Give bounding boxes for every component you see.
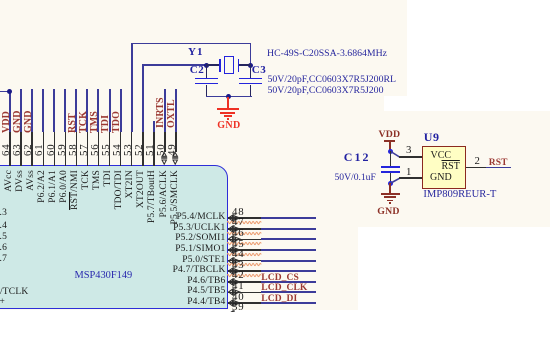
pin number 57 — [79, 156, 91, 167]
wire from pin 41 — [261, 291, 316, 293]
wire XT2IN vertical right drop — [250, 43, 252, 67]
wire from pin 40 — [261, 302, 316, 304]
net label GND — [24, 133, 47, 143]
wire RST net — [486, 167, 511, 169]
ground GND (crystal) label — [217, 121, 240, 131]
pin name TDO/TDI (rotated) — [115, 170, 154, 180]
pin 41 (P4.5/TB5) name — [187, 287, 225, 297]
net label VDD — [2, 133, 24, 143]
pin 52 (XT2OUT) stub — [142, 132, 144, 166]
pin 49 I/O arrow — [172, 152, 179, 165]
pin 39 partial number — [232, 302, 244, 313]
wire net of pin 52 (vertical) — [142, 65, 144, 133]
U9 pin 2 number — [475, 156, 480, 167]
pin 57 (TCK) stub — [87, 132, 89, 166]
wire from pin 42 — [261, 281, 316, 283]
capacitor C2 top plate — [195, 78, 218, 80]
pin 42 (P4.6/TB6) name — [187, 277, 225, 287]
net label TDI — [101, 133, 119, 143]
net label GND — [13, 133, 36, 143]
wire diagonal VDD to pin3 — [389, 150, 401, 159]
NoERC wavy marker pin 43 — [227, 273, 262, 278]
wire XT2IN horizontal (top) — [131, 43, 251, 45]
designator U9 — [424, 131, 440, 143]
designator C12 — [344, 151, 371, 163]
pin name XT2OUT (rotated) — [137, 170, 175, 180]
pin number 62 — [23, 156, 35, 167]
capacitor C2 bottom plate — [195, 83, 218, 85]
U9 pin name VCC — [431, 151, 452, 161]
pin 48 I/O arrow — [228, 213, 241, 223]
value 50V/20pF,CC0603X7R5J200RL — [268, 75, 397, 85]
pin 39 partial arrow — [228, 309, 241, 319]
NoERC wavy marker pin 44 — [227, 262, 262, 267]
pin number 45 — [232, 239, 244, 250]
pin 51 (P5.7/TBoutH) stub — [153, 132, 155, 166]
U9 pin 1 number — [406, 167, 411, 178]
node crystal left (C2/Y1/XT2OUT) — [204, 63, 209, 68]
pin 62 (AVss) stub — [31, 132, 33, 166]
pin 45 (P5.1/SIMO1) name — [175, 245, 225, 255]
pin 47 (P5.3/UCLK1) name — [173, 224, 225, 234]
wire net of pin 49 (vertical) — [175, 89, 177, 133]
sheet background (cream) lower-left region — [0, 227, 358, 310]
pin 49 (P5.5/SMCLK) stub — [175, 132, 177, 152]
pin number 48 — [232, 207, 244, 218]
power port VDD bar — [384, 140, 396, 142]
pin number 43 — [232, 260, 244, 271]
pin number 60 — [46, 156, 58, 167]
NoERC wavy marker pin 47 — [227, 231, 262, 236]
pin 50 I/O arrow — [161, 152, 168, 165]
pin name P5.5/SMCLK (rotated) — [171, 170, 226, 180]
pin number 46 — [232, 228, 244, 239]
dimmed (white) mask top-right — [407, 0, 550, 111]
ground GND (C12) stem — [389, 183, 391, 194]
pin number 54 — [112, 156, 124, 167]
pin name P6.0/A0 (rotated) — [60, 170, 93, 180]
pin 60 (P6.1/A1) stub — [54, 132, 56, 166]
power port VDD stem — [389, 141, 391, 151]
U9 pin 1 stub — [399, 177, 423, 179]
crystal Y1 left lead — [206, 64, 220, 66]
left-edge pin name fragment 0/TCLK — [0, 288, 28, 298]
wire from pin 48 — [261, 217, 316, 219]
designator C2 — [190, 65, 204, 76]
designator C3 — [252, 65, 266, 76]
wire net of pin 64 (vertical) — [9, 91, 11, 132]
wire net of pin 58 (vertical) — [75, 89, 77, 133]
net label RST — [489, 159, 508, 169]
pin number 53 — [123, 156, 135, 167]
capacitor C3 bottom pin — [250, 85, 252, 97]
wire net of pin 53 (vertical) — [131, 43, 133, 132]
wire net of pin 62 (vertical) — [31, 89, 33, 133]
pin number 64 — [1, 156, 13, 167]
pin 48 stub — [228, 217, 261, 219]
pin 46 (P5.2/SOMI1) name — [175, 234, 225, 244]
left-edge pin name fragment .3 — [0, 209, 7, 219]
capacitor C3 bottom plate — [239, 83, 262, 85]
pin name AVcc (rotated) — [5, 170, 27, 180]
pin number 42 — [232, 270, 244, 281]
pin number 50 — [156, 156, 168, 167]
pin number 44 — [232, 249, 244, 260]
node VDD junction — [7, 89, 12, 94]
node crystal right (C3/Y1/XT2IN) — [248, 63, 253, 68]
wire from pin 47 — [261, 228, 316, 230]
pin name DVss (rotated) — [16, 170, 38, 180]
pin 56 (TMS) stub — [98, 132, 100, 166]
pin number 59 — [57, 156, 69, 167]
crystal Y1 body rectangle — [224, 56, 233, 75]
ground GND (crystal) stem — [227, 97, 229, 109]
sheet background (cream) top region — [0, 0, 550, 227]
wire net of pin 61 (vertical) — [42, 89, 44, 133]
U9 pin 3 number — [406, 145, 411, 156]
pin 64 (AVcc) stub — [9, 132, 11, 166]
left-edge pin name fragment .7 — [0, 255, 7, 265]
pin 42 stub — [228, 281, 261, 283]
wire diagonal GND node to pin1 — [389, 175, 401, 185]
capacitor C12 top plate — [381, 166, 400, 168]
white mask below sheet bottom — [0, 312, 550, 340]
pin name P5.6/ACLK (rotated) — [160, 170, 207, 180]
pin 41 stub — [228, 292, 261, 294]
pin 54 (TDO/TDI) stub — [120, 132, 122, 166]
U9 pin 3 stub — [399, 156, 423, 158]
pin 40 (P4.4/TB4) name — [187, 298, 225, 308]
pin name TMS (rotated) — [93, 170, 113, 180]
capacitor C3 top plate — [239, 78, 262, 80]
dimmed (white) mask notch under value text — [384, 96, 408, 111]
pin 55 (TDI) stub — [109, 132, 111, 166]
U9 pin 2 stub — [466, 167, 490, 169]
value 50V/0.1uF — [335, 173, 376, 183]
pin 40 stub — [228, 302, 261, 304]
NoERC wavy marker pin 45 — [227, 252, 262, 257]
MCU MSP430F149 component body — [0, 165, 228, 310]
pin name TDI (rotated) — [104, 170, 120, 180]
pin 43 stub — [228, 270, 261, 272]
capacitor C2 top pin — [206, 65, 208, 78]
power port VDD label — [379, 130, 401, 140]
pin 53 (XT2IN) stub — [131, 132, 133, 166]
wire crystal bottom (C2-C3 ground link) — [206, 96, 252, 98]
pin 46 I/O arrow — [228, 234, 241, 244]
wire net of pin 63 (vertical) — [20, 89, 22, 133]
net label TMS — [90, 133, 112, 143]
pin 58 (RSTNMI) stub — [76, 132, 78, 166]
ground GND (C12) bars — [381, 193, 400, 195]
wire VDD rail to left edge — [0, 91, 10, 93]
pin number 52 — [134, 156, 146, 167]
net label OXTL — [167, 128, 196, 138]
capacitor C3 top pin — [250, 65, 252, 78]
wire net of pin 57 (vertical) — [86, 89, 88, 133]
net label TCK — [79, 133, 101, 143]
pin 44 stub — [228, 260, 261, 262]
pin 41 I/O arrow — [228, 287, 241, 297]
wire from pin 44 — [261, 260, 316, 262]
pin 43 (P4.7/TBCLK) name — [173, 266, 226, 276]
NoERC wavy marker pin 46 — [227, 241, 262, 246]
MCU designator text MSP430F149 — [75, 271, 133, 281]
pin number 58 — [68, 156, 80, 167]
pin name P6.1/A1 (rotated) — [49, 170, 82, 180]
ground GND (C12) label — [377, 207, 399, 217]
wire from pin 45 — [261, 249, 316, 251]
wire net of pin 51 (vertical) — [153, 121, 155, 133]
value IMP809REUR-T — [423, 190, 496, 201]
net label LCD_DI — [261, 295, 297, 305]
wire net of pin 55 (vertical) — [109, 89, 111, 133]
net label RST — [68, 133, 88, 143]
wire net of pin 54 (vertical) — [120, 89, 122, 133]
pin 43 I/O arrow — [228, 266, 241, 276]
value HC-49S-C20SSA-3.6864MHz — [267, 49, 387, 59]
capacitor C12 bottom plate — [381, 171, 400, 173]
crystal Y1 right lead — [239, 64, 251, 66]
wire from pin 43 — [261, 270, 316, 272]
pin 46 stub — [228, 239, 261, 241]
pin name TCK (rotated) — [82, 170, 102, 180]
net label TDO — [112, 133, 134, 143]
capacitor C12 top pin — [390, 151, 392, 166]
wire net of pin 60 (vertical) — [53, 89, 55, 133]
wire XT2OUT horizontal — [142, 64, 206, 66]
node crystal ground center — [226, 94, 231, 99]
capacitor C12 bottom pin — [390, 173, 392, 183]
pin number 63 — [12, 156, 24, 167]
pin 42 I/O arrow — [228, 277, 241, 287]
pin 44 I/O arrow — [228, 256, 241, 266]
pin 61 (P6.2/A2) stub — [43, 132, 45, 166]
pin number 56 — [90, 156, 102, 167]
left-edge pin name fragment + — [0, 298, 5, 308]
net label INRTS — [156, 128, 187, 138]
pin number 49 — [167, 156, 179, 167]
wire net of pin 50 (vertical) — [164, 89, 166, 133]
wire net of pin 59 (vertical) — [64, 89, 66, 133]
pin 50 (P5.6/ACLK) stub — [164, 132, 166, 152]
left-edge pin name fragment .4 — [0, 222, 7, 232]
node VDD/C12/pin3 junction — [388, 149, 393, 154]
pin number 51 — [145, 156, 157, 167]
pin 40 I/O arrow — [228, 298, 241, 308]
crystal Y1 left plate — [219, 59, 221, 71]
NoERC wavy marker pin 48 — [227, 220, 262, 225]
IC U9 body — [422, 146, 466, 189]
wire net of pin 56 (vertical) — [97, 89, 99, 133]
pin name P6.2/A2 (rotated) — [38, 170, 71, 180]
left-edge pin name fragment .5 — [0, 233, 7, 243]
pin name AVss (rotated) — [27, 170, 48, 180]
crystal Y1 right plate — [238, 59, 240, 71]
pin number 55 — [101, 156, 113, 167]
node C12/GND/pin1 junction — [388, 181, 393, 186]
pin 45 stub — [228, 249, 261, 251]
pin number 47 — [232, 217, 244, 228]
pin 45 I/O arrow — [228, 245, 241, 255]
wire from pin 46 — [261, 238, 316, 240]
pin 63 (DVss) stub — [20, 132, 22, 166]
pin 44 (P5.0/STE1) name — [182, 256, 225, 266]
pin 47 I/O arrow — [228, 224, 241, 234]
pin name RSTNMI (rotated) — [71, 170, 111, 180]
net label LCD_CLK — [261, 284, 307, 294]
pin 48 (P5.4/MCLK) name — [176, 213, 225, 223]
pin number 61 — [34, 156, 46, 167]
capacitor C2 bottom pin — [206, 85, 208, 97]
pin name XT2IN (rotated) — [126, 170, 154, 180]
pin number 41 — [232, 281, 244, 292]
value 50V/20pF,CC0603X7R5J200 — [268, 86, 384, 96]
pin name P5.7/TBoutH (rotated) — [148, 170, 201, 180]
designator Y1 — [188, 47, 204, 58]
pin 47 stub — [228, 228, 261, 230]
net label LCD_CS — [261, 274, 299, 284]
pin 59 (P6.0/A0) stub — [65, 132, 67, 166]
U9 pin name RST (overline) — [442, 162, 460, 172]
ground GND (crystal) bars — [217, 108, 239, 110]
pin number 40 — [232, 292, 244, 303]
U9 pin name GND — [430, 173, 452, 183]
left-edge pin name fragment .6 — [0, 244, 7, 254]
